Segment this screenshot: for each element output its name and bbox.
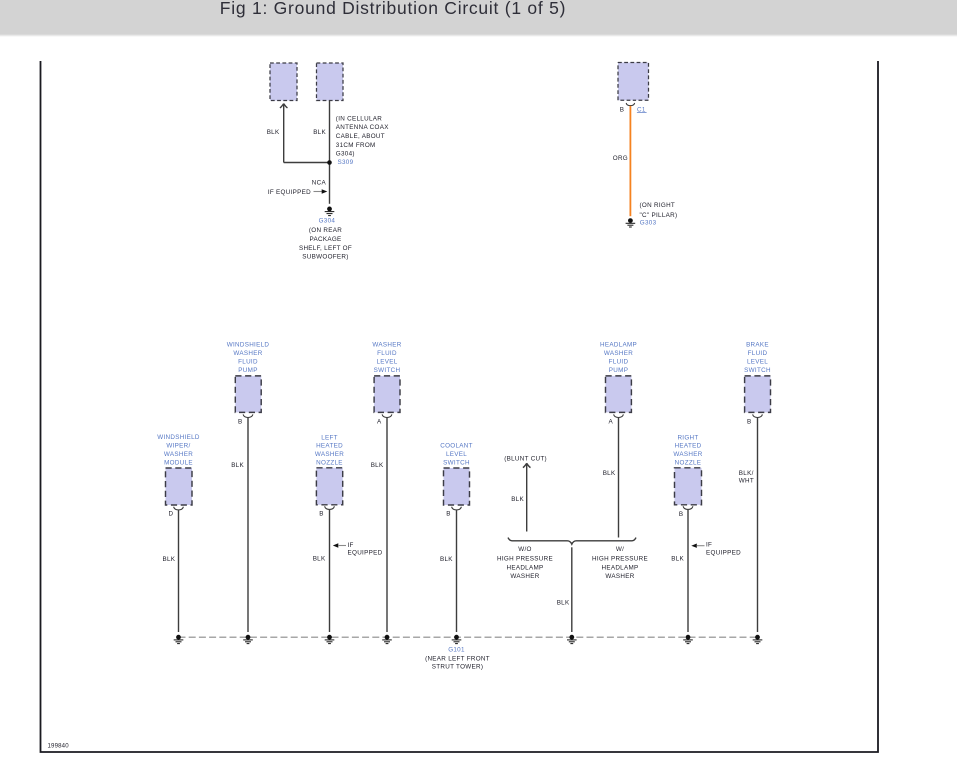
wire BLK to ground bus [386,417,388,632]
svg-text:(BLUNT CUT): (BLUNT CUT) [504,456,547,463]
svg-text:NOZZLE: NOZZLE [316,459,343,466]
wire BLK to ground bus [329,510,331,632]
ground symbol (coolant switch) G101 [452,635,462,644]
note: near left front strut tower [425,656,490,671]
svg-text:WASHER: WASHER [605,573,634,580]
svg-text:BLK: BLK [313,129,326,136]
svg-text:G304): G304) [336,151,355,158]
svg-text:A: A [377,418,382,425]
svg-text:FLUID: FLUID [748,350,768,357]
component: WINDSHIELD WIPER/WASHER MODULE [157,434,200,467]
wire horizontal to junction [284,162,330,164]
svg-text:HIGH PRESSURE: HIGH PRESSURE [497,556,553,563]
svg-text:SWITCH: SWITCH [744,367,771,374]
svg-text:EQUIPPED: EQUIPPED [348,550,383,557]
svg-text:"C" PILLAR): "C" PILLAR) [640,212,678,219]
svg-text:NOZZLE: NOZZLE [675,459,702,466]
svg-text:(ON RIGHT: (ON RIGHT [640,202,676,209]
svg-text:RIGHT: RIGHT [677,434,698,441]
svg-text:IF: IF [348,542,354,549]
svg-text:FLUID: FLUID [377,350,397,357]
svg-text:BLK: BLK [162,556,175,563]
svg-text:SWITCH: SWITCH [443,459,470,466]
wire BLK to ground bus [178,510,180,632]
component: BRAKE FLUID LEVEL SWITCH [744,342,771,375]
svg-text:PUMP: PUMP [609,367,628,374]
connector cavity cup C1 [626,103,634,106]
svg-text:BLK: BLK [603,470,616,477]
svg-text:SUBWOOFER): SUBWOOFER) [302,253,348,260]
svg-text:CABLE, ABOUT: CABLE, ABOUT [336,133,385,140]
svg-text:LEVEL: LEVEL [747,359,768,366]
ground symbol (brake switch) [753,635,763,644]
svg-text:HEATED: HEATED [316,443,343,450]
wire BLK to ground bus [247,417,249,632]
svg-text:FLUID: FLUID [609,359,629,366]
wire BLK to ground bus [456,510,458,632]
svg-text:HEADLAMP: HEADLAMP [600,342,637,349]
connector box (windshield wiper/washer module) [166,468,193,505]
connector cavity cup [452,507,462,510]
ground symbol (washer pump) [243,635,253,644]
svg-text:FLUID: FLUID [238,359,258,366]
svg-text:S309: S309 [338,159,354,166]
wire from brace to ground bus [571,547,573,632]
svg-text:B: B [620,107,625,114]
svg-text:HIGH PRESSURE: HIGH PRESSURE [592,556,648,563]
svg-text:B: B [679,511,684,518]
svg-text:HEATED: HEATED [675,443,702,450]
note: on rear package shelf [299,227,352,260]
component: COOLANT LEVEL SWITCH [440,443,473,467]
label BLK/WHT [739,470,754,485]
component: WASHER FLUID LEVEL SWITCH [372,342,401,375]
connector cavity cup [382,414,392,417]
connector box (right heated washer nozzle) [675,468,702,505]
svg-text:HEADLAMP: HEADLAMP [601,564,638,571]
svg-text:W/: W/ [616,546,624,553]
svg-text:ORG: ORG [613,155,628,162]
header bar [0,0,957,34]
svg-text:BLK: BLK [557,599,570,606]
wire BLK to ground bus [687,510,689,632]
connector box (brake fluid level switch) [745,376,771,413]
svg-text:WIPER/: WIPER/ [166,442,190,449]
label W/ HIGH PRESSURE HEADLAMP WASHER [592,546,648,580]
connector cavity cup [174,507,184,510]
svg-text:LEVEL: LEVEL [446,451,467,458]
component: HEADLAMP WASHER FLUID PUMP [600,342,637,375]
connector box (left heated washer nozzle) [316,468,342,505]
svg-text:G304: G304 [319,218,336,225]
svg-text:BLK: BLK [313,555,326,562]
svg-text:W/O: W/O [518,546,532,553]
ground bus dashed line [179,636,758,638]
connector box (top-left #2) [317,63,344,101]
svg-text:WASHER: WASHER [673,451,702,458]
svg-text:HEADLAMP: HEADLAMP [506,564,543,571]
wire ORG down to G303 [629,106,631,216]
connector box (top-left #1) [270,63,297,101]
arrow IF EQUIPPED (left nozzle) [333,543,339,547]
svg-text:BLK: BLK [371,462,384,469]
svg-text:BLK: BLK [267,129,280,136]
svg-text:IF EQUIPPED: IF EQUIPPED [268,189,311,196]
connector box (headlamp washer fluid pump) [606,376,632,413]
connector box (coolant level switch) [444,468,470,505]
component: LEFT HEATED WASHER NOZZLE [315,434,344,466]
connector cavity cup [683,506,693,509]
svg-text:IF: IF [706,542,712,549]
svg-text:(ON REAR: (ON REAR [309,227,342,234]
svg-text:B: B [446,511,451,518]
connector cavity cup [753,414,763,417]
brace (options join) [508,538,636,545]
svg-text:BLK: BLK [671,556,684,563]
splice junction dot S309 [327,160,332,165]
svg-text:31CM FROM: 31CM FROM [336,142,376,149]
ground G304 symbol [325,207,335,216]
svg-text:MODULE: MODULE [164,459,193,466]
arrow up (blunt cut) [523,463,531,467]
ground symbol (brace wire) [567,635,577,644]
ground symbol (fluid level switch) [382,635,392,644]
svg-text:WASHER: WASHER [604,350,633,357]
svg-text:D: D [168,510,173,517]
wire BLK/WHT to ground bus [757,417,759,632]
svg-text:ANTENNA COAX: ANTENNA COAX [336,124,389,131]
svg-text:WINDSHIELD: WINDSHIELD [227,342,270,349]
connector box (windshield washer fluid pump) [235,376,261,413]
ground G303 symbol [626,218,636,227]
ground symbol (wiper module) [174,635,184,644]
connector cavity cup [325,506,335,509]
arrow right to wire [314,191,323,193]
ground symbol (left nozzle) [325,635,335,644]
frame border [41,61,879,752]
svg-text:PUMP: PUMP [238,367,257,374]
svg-text:G101: G101 [448,646,465,653]
figure title [0,0,786,19]
svg-text:B: B [747,418,752,425]
connector box C1 (top-right) [618,63,649,101]
svg-text:BLK: BLK [440,556,453,563]
svg-text:BRAKE: BRAKE [746,342,769,349]
svg-text:WASHER: WASHER [233,350,262,357]
svg-text:NCA: NCA [312,179,327,186]
svg-text:WASHER: WASHER [164,451,193,458]
arrow IF EQUIPPED (right nozzle) [691,544,697,548]
svg-text:(IN CELLULAR: (IN CELLULAR [336,115,382,122]
svg-text:(NEAR LEFT FRONT: (NEAR LEFT FRONT [425,656,490,663]
ground symbol (right nozzle) [683,635,693,644]
svg-text:BLK/: BLK/ [739,470,754,477]
note: in cellular antenna coax cable [336,115,389,157]
svg-text:WASHER: WASHER [372,342,401,349]
svg-text:B: B [319,511,324,518]
svg-text:LEVEL: LEVEL [376,359,397,366]
label W/O HIGH PRESSURE HEADLAMP WASHER [497,546,553,580]
svg-text:BLK: BLK [511,496,524,503]
wire BLK from box1 arrow down [283,104,285,163]
svg-text:STRUT TOWER): STRUT TOWER) [432,663,484,670]
svg-text:WASHER: WASHER [315,451,344,458]
svg-text:LEFT: LEFT [321,434,338,441]
svg-text:A: A [609,418,614,425]
wire BLK to brace [618,417,620,537]
svg-text:WHT: WHT [739,478,754,485]
arrow up into box 1 [280,104,288,108]
svg-text:COOLANT: COOLANT [440,443,473,450]
svg-text:WINDSHIELD: WINDSHIELD [157,434,200,441]
connector box (washer fluid level switch) [374,376,400,413]
svg-text:EQUIPPED: EQUIPPED [706,550,741,557]
wire BLK from box2 down to G304 [329,101,331,204]
component: WINDSHIELD WASHER FLUID PUMP [227,342,270,375]
svg-text:PACKAGE: PACKAGE [309,236,341,243]
component: RIGHT HEATED WASHER NOZZLE [673,434,702,466]
svg-text:G303: G303 [640,219,657,226]
note: on right C pillar [640,202,678,219]
svg-text:WASHER: WASHER [510,573,539,580]
svg-text:BLK: BLK [231,462,244,469]
svg-text:SHELF, LEFT OF: SHELF, LEFT OF [299,245,352,252]
svg-text:199840: 199840 [48,743,70,750]
svg-text:SWITCH: SWITCH [374,367,401,374]
connector cavity cup [614,414,624,417]
connector cavity cup [243,414,253,417]
svg-text:B: B [238,418,243,425]
